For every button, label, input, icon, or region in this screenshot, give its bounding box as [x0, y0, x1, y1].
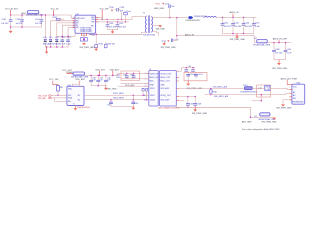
wire bend to bead	[253, 36, 257, 43]
ground secondary	[158, 25, 162, 27]
svg-text:VDD_3V3: VDD_3V3	[95, 69, 105, 71]
svg-text:C145: C145	[255, 22, 260, 24]
svg-text:WS_PWR_GND: WS_PWR_GND	[161, 47, 177, 49]
svg-text:VDD_DNP: VDD_DNP	[160, 99, 170, 101]
connector J1 right half	[159, 71, 176, 107]
ferrite bead MH4	[259, 113, 276, 121]
svg-text:C152: C152	[66, 37, 71, 39]
svg-text:C98: C98	[130, 74, 133, 76]
wire bead out bus	[85, 73, 118, 75]
ground divider	[94, 49, 98, 51]
capacitor C92	[104, 75, 111, 86]
svg-text:PI4IOE5V9554: PI4IOE5V9554	[77, 107, 90, 109]
wire SW rail B	[98, 21, 129, 23]
ground DNP caps	[278, 60, 280, 64]
svg-text:0.1uF: 0.1uF	[255, 26, 261, 28]
svg-text:C142: C142	[224, 22, 229, 24]
svg-text:C144: C144	[245, 22, 250, 24]
svg-text:AVS_GND: AVS_GND	[154, 7, 164, 10]
wire PGND return	[89, 33, 142, 36]
svg-text:C148: C148	[1, 19, 6, 21]
diode D13	[55, 37, 61, 47]
svg-text:GND: GND	[160, 84, 165, 86]
wire AVDD feed vertical	[176, 18, 178, 36]
svg-text:AVS_GND: AVS_GND	[242, 120, 252, 123]
svg-text:C140: C140	[109, 23, 114, 25]
wire primary return	[142, 32, 146, 34]
wire U36 pin3 to D row	[57, 23, 73, 38]
svg-text:T1: T1	[143, 13, 145, 15]
svg-text:MDIO_UP: MDIO_UP	[150, 77, 159, 79]
diode D12	[48, 37, 54, 47]
svg-text:10: 10	[144, 95, 146, 97]
svg-text:C95: C95	[107, 105, 110, 107]
wire bus VIN top	[11, 15, 75, 18]
ground bus caps	[194, 107, 196, 109]
wire AVDD_ALT pin	[287, 80, 292, 84]
svg-text:For a wide configuration Mode: For a wide configuration Mode MDIO DNP	[242, 128, 280, 131]
svg-text:C141: C141	[119, 23, 124, 25]
ground caps left	[10, 27, 12, 31]
wire AVDD caps gnd bus	[223, 33, 254, 35]
ferrite bead MH2	[71, 72, 88, 78]
svg-text:WS_PWR_GND: WS_PWR_GND	[276, 107, 292, 109]
connector J1 left half	[149, 69, 159, 106]
svg-text:MDC_OUT: MDC_OUT	[160, 81, 170, 83]
diode D11	[43, 37, 49, 47]
svg-text:C100: C100	[190, 74, 195, 76]
capacitor C151	[60, 37, 66, 47]
svg-text:VDD_MDIO_A18: VDD_MDIO_A18	[214, 95, 228, 98]
svg-text:1uF 16V: 1uF 16V	[224, 26, 232, 28]
svg-text:VDD2_MDIO: VDD2_MDIO	[113, 98, 125, 100]
capacitor C161	[284, 42, 292, 60]
wire BST stub	[98, 18, 103, 20]
capacitor C145	[252, 17, 260, 33]
capacitor C95	[107, 99, 113, 107]
svg-text:1uF 16V: 1uF 16V	[234, 26, 242, 28]
svg-text:WS-CONNECTOR-MDIO: WS-CONNECTOR-MDIO	[159, 107, 181, 109]
svg-text:A2: A2	[293, 94, 295, 97]
capacitor C91	[97, 75, 104, 86]
wire DNP caps gnd bus	[274, 59, 286, 61]
wire bead row	[251, 116, 274, 118]
resistor R60	[57, 85, 63, 96]
svg-text:C161: C161	[287, 49, 292, 51]
capacitor C150	[35, 14, 43, 27]
svg-text:PGND: PGND	[90, 35, 96, 37]
svg-text:WS_GND: WS_GND	[107, 88, 117, 90]
capacitor C144	[242, 17, 253, 34]
wire J1 left pins	[147, 73, 149, 86]
wire gnd bus caps	[11, 26, 42, 28]
svg-text:1uF 16V: 1uF 16V	[275, 53, 283, 55]
svg-text:TP31: TP31	[155, 4, 160, 6]
svg-text:B2: B2	[78, 99, 80, 101]
svg-text:WS_DAT: WS_DAT	[38, 97, 47, 100]
svg-text:1uF 16V: 1uF 16V	[109, 27, 117, 29]
wire AVDD bus	[216, 16, 256, 18]
cluster caps above DNP box 2	[185, 66, 195, 72]
svg-text:1uF 16V: 1uF 16V	[245, 26, 253, 28]
test point TP33 cluster	[161, 35, 179, 49]
wire bus to J1 top pin	[118, 72, 149, 74]
ground caps bottom	[105, 86, 107, 88]
port WS_CLKE	[38, 95, 67, 98]
wire U16 out2	[84, 99, 149, 101]
svg-text:MH-BZ103AL-T4FB: MH-BZ103AL-T4FB	[253, 43, 270, 46]
svg-text:L10: L10	[254, 38, 257, 40]
wire to J1 mid pin	[121, 78, 149, 80]
svg-text:0.1uF: 0.1uF	[66, 44, 72, 46]
wire second MDIO row	[205, 94, 257, 96]
svg-text:1uF 16V: 1uF 16V	[1, 23, 9, 25]
svg-text:C101: C101	[198, 74, 203, 76]
svg-text:AVDD_IN: AVDD_IN	[185, 33, 194, 36]
wire VDD_3V3 pin	[99, 71, 101, 75]
resistor R138	[210, 88, 217, 96]
svg-text:5: 5	[73, 27, 74, 29]
svg-text:AVDD_IN_DNP: AVDD_IN_DNP	[273, 38, 288, 41]
wire U36 pin2 to D row	[51, 21, 73, 39]
wire to U38 pin A2	[271, 93, 290, 94]
junction at VCC_IN_EXT	[10, 14, 12, 16]
svg-text:WS_PWR_GND: WS_PWR_GND	[230, 39, 246, 41]
svg-text:VDD1: VDD1	[150, 88, 155, 90]
inductor L3	[124, 11, 132, 23]
capacitor C107	[186, 97, 194, 108]
capacitor C90	[90, 75, 97, 86]
svg-text:C151: C151	[61, 37, 66, 39]
svg-text:R60: R60	[59, 87, 62, 89]
resistor R132	[53, 17, 64, 20]
capacitor C160	[272, 42, 283, 60]
ground DNP box 2	[187, 81, 189, 84]
svg-text:C97: C97	[123, 74, 126, 76]
svg-text:A1: A1	[293, 91, 295, 94]
ground caps mid	[112, 30, 114, 32]
wire J1 out VDD_A18	[179, 88, 211, 90]
wire U36 pin5 to C row	[68, 28, 73, 39]
svg-text:VDD: VDD	[68, 88, 73, 90]
svg-text:VCC_IN: VCC_IN	[51, 9, 59, 11]
wire secondary top to port	[153, 17, 189, 19]
wire VCC_3V3 pin	[67, 72, 73, 74]
capacitor C143	[231, 17, 242, 34]
svg-text:VDD_A18: VDD_A18	[125, 84, 135, 87]
wire VCC_IN pin	[53, 10, 55, 15]
svg-text:C150: C150	[35, 19, 40, 21]
wire VIN to D1	[44, 15, 46, 38]
wire to J1 MDC pin	[118, 85, 149, 87]
DNP box 1	[121, 71, 140, 81]
svg-text:MDC: MDC	[150, 81, 155, 83]
svg-text:1uF 16V: 1uF 16V	[16, 23, 24, 25]
svg-text:C107: C107	[189, 104, 194, 106]
wire caps gnd bus	[108, 29, 118, 31]
svg-text:TP36: TP36	[109, 7, 114, 9]
wire SW rail A	[98, 17, 145, 20]
test point TP31 cluster	[154, 3, 175, 18]
svg-text:AVDD_IN: AVDD_IN	[230, 11, 239, 14]
capacitor C108	[194, 97, 202, 108]
svg-text:R138: R138	[212, 91, 217, 93]
wire U16 top pins	[72, 84, 79, 86]
wire U38 gnd	[283, 100, 290, 105]
svg-text:MDIO_OUT: MDIO_OUT	[160, 77, 171, 79]
ground below U36	[82, 43, 86, 45]
svg-text:VDD_A18: VDD_A18	[110, 68, 120, 71]
svg-text:PGND PGND: PGND PGND	[80, 31, 92, 33]
svg-text:C149: C149	[16, 19, 21, 21]
wire J1 out top	[176, 68, 195, 72]
port WS_DAT	[38, 97, 67, 102]
wire AVDD_IN pin	[232, 14, 234, 18]
wire VCC_IN_EXT pin	[10, 10, 12, 15]
wire J1 out VDDQ	[179, 96, 196, 98]
svg-text:TP33: TP33	[161, 41, 166, 43]
ferrite bead FB2	[241, 85, 258, 94]
test point TP36 cluster	[109, 7, 124, 20]
resistor divider right of U36	[95, 34, 116, 49]
svg-text:0.1uF: 0.1uF	[287, 53, 293, 55]
wire secondary bottom	[153, 31, 159, 35]
DNP box 2	[184, 72, 207, 81]
svg-text:1uF 16V: 1uF 16V	[119, 27, 127, 29]
svg-text:VDDQ: VDDQ	[150, 99, 156, 101]
wire feedback bottom	[57, 33, 75, 36]
svg-text:MH-BZ103AL-T4FB: MH-BZ103AL-T4FB	[71, 75, 88, 78]
svg-text:C96: C96	[135, 103, 138, 105]
resistor R61	[111, 95, 138, 110]
wire to U38 pin A1	[252, 87, 264, 89]
svg-text:C99: C99	[188, 66, 191, 68]
wire AVDD feed horizontal	[177, 35, 253, 37]
svg-text:GND: GND	[150, 84, 155, 86]
resistor network below U36	[80, 36, 87, 43]
svg-text:VCC_SW: VCC_SW	[100, 8, 109, 10]
wire U36 pin4 to C row	[62, 25, 72, 38]
svg-text:WS_PWR_GND: WS_PWR_GND	[262, 121, 278, 123]
svg-text:WS_PWR_GND: WS_PWR_GND	[272, 68, 288, 70]
transformer T1	[143, 13, 155, 37]
wire long bus to bead	[176, 106, 250, 117]
IC U16	[67, 85, 84, 106]
capacitor C148	[1, 15, 12, 27]
capacitor C140	[106, 21, 117, 29]
svg-text:C136: C136	[120, 7, 125, 9]
svg-text:B1: B1	[78, 95, 80, 97]
resistor R62 R63 pullups	[142, 88, 148, 100]
svg-text:VCC_1V8: VCC_1V8	[49, 79, 59, 81]
wire VDD_A18 pin 2	[78, 81, 80, 84]
svg-text:BAT54: BAT54	[48, 43, 54, 46]
ferrite bead MH1	[26, 11, 43, 17]
svg-text:PULSE P0544: PULSE P0544	[143, 34, 155, 36]
svg-text:12: 12	[144, 99, 146, 101]
wire VDD_A18 pin	[112, 71, 114, 75]
capacitor C142	[221, 17, 232, 34]
svg-text:PWRDDR5VIN: PWRDDR5VIN	[186, 20, 200, 22]
op-amp U36 regulator	[73, 14, 98, 36]
svg-text:R135: R135	[99, 43, 104, 45]
svg-text:WS_PWR_GND: WS_PWR_GND	[187, 88, 203, 90]
svg-text:VDDQ_OUT: VDDQ_OUT	[160, 95, 171, 97]
svg-text:WS_PWR_GND: WS_PWR_GND	[192, 113, 208, 115]
svg-text:VCC_IN_EXT: VCC_IN_EXT	[5, 8, 19, 10]
wire secondary mid to gnd	[153, 24, 160, 26]
svg-text:VDD2: VDD2	[150, 95, 155, 97]
ground arrow bead row	[272, 118, 276, 120]
ground U16	[74, 106, 76, 109]
svg-text:PI3USB102E: PI3USB102E	[292, 102, 304, 104]
wire U16 out1	[84, 94, 149, 96]
wire AVDD_DNP pin	[278, 40, 280, 42]
inductor L2	[194, 16, 217, 18]
wire VCC_SW pin	[101, 10, 103, 19]
svg-text:VDDIO_OUT: VDDIO_OUT	[160, 73, 172, 75]
svg-text:VCC: VCC	[293, 86, 298, 88]
ground D row	[46, 47, 48, 52]
svg-text:VDD_A18: VDD_A18	[75, 78, 85, 81]
capacitor C149	[16, 14, 24, 27]
wire D row gnd bus	[45, 46, 68, 48]
IC U38	[290, 83, 305, 105]
wire VCC_1V8 pin	[53, 81, 58, 85]
pin numbers J1 left	[144, 73, 146, 101]
svg-text:R136 10K: R136 10K	[107, 43, 116, 45]
wire J1 right pins	[176, 71, 178, 100]
svg-text:VDD1_MDIO: VDD1_MDIO	[113, 93, 125, 95]
capacitor C141	[116, 21, 127, 29]
ground U38	[281, 104, 285, 106]
svg-text:C108: C108	[197, 104, 202, 106]
capacitor C152	[66, 37, 72, 47]
svg-text:VDD_MDIO_A18: VDD_MDIO_A18	[213, 86, 227, 89]
svg-text:VDDIO_IN: VDDIO_IN	[150, 73, 160, 75]
wire MDC branch	[252, 95, 261, 101]
ferrite bead MH3	[253, 40, 270, 47]
svg-text:D11: D11	[43, 37, 46, 39]
svg-text:AVDD_ALT_PWR: AVDD_ALT_PWR	[281, 78, 298, 81]
wire VDD_MDIO_A18	[211, 88, 245, 90]
svg-text:WS_PWR_GND: WS_PWR_GND	[80, 47, 96, 49]
svg-text:BLM18SG700TN1D: BLM18SG700TN1D	[241, 91, 258, 93]
svg-text:1uF 16V: 1uF 16V	[35, 23, 43, 25]
port PWRDDR5VIN arrow	[186, 16, 200, 22]
svg-text:WS_GND: WS_GND	[156, 29, 166, 31]
wire J1 out lower stub	[179, 100, 184, 102]
red box DNP resistors	[257, 85, 271, 97]
svg-text:SW: SW	[91, 22, 94, 24]
svg-text:C160: C160	[275, 49, 280, 51]
wire caps gnd bus bottom	[91, 85, 106, 87]
ground AVDD caps	[236, 34, 238, 37]
wire bead out	[267, 42, 291, 44]
svg-text:C143: C143	[234, 22, 239, 24]
svg-text:1V8: 1V8	[116, 77, 119, 79]
svg-text:VDD_A18: VDD_A18	[160, 87, 168, 90]
